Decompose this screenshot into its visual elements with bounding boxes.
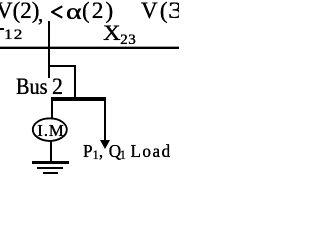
node label V(2) bbox=[0, 0, 39, 22]
wire: motor stub bbox=[51, 100, 53, 119]
wire: vertical to bus bbox=[74, 65, 77, 101]
ground bar 1 bbox=[32, 161, 69, 164]
reactance label X12 (cut at left edge) bbox=[0, 28, 4, 30]
node label V(3), cut at right edge bbox=[141, 0, 182, 22]
ground bar 3 bbox=[43, 172, 58, 174]
ground bar 2 bbox=[37, 167, 63, 170]
bus 2 bar bbox=[51, 97, 107, 101]
comma mark after V(2) bbox=[38, 4, 43, 25]
reactance label X23 bbox=[103, 22, 136, 48]
wire: load feeder bbox=[104, 100, 107, 140]
induction motor circle bbox=[30, 116, 70, 143]
label Bus 2 bbox=[16, 75, 48, 98]
angle symbol bbox=[51, 5, 63, 19]
transmission line (thick horizontal) bbox=[0, 46, 179, 47]
motor label I.M bbox=[37, 122, 64, 139]
wire: horizontal jog bbox=[48, 65, 76, 67]
load arrow head bbox=[100, 140, 110, 149]
angle value alpha(2) bbox=[66, 0, 82, 23]
load label P1, Q1 Load bbox=[83, 142, 172, 162]
wire: vertical drop from line bbox=[48, 21, 50, 78]
wire: ground stub bbox=[50, 141, 53, 162]
